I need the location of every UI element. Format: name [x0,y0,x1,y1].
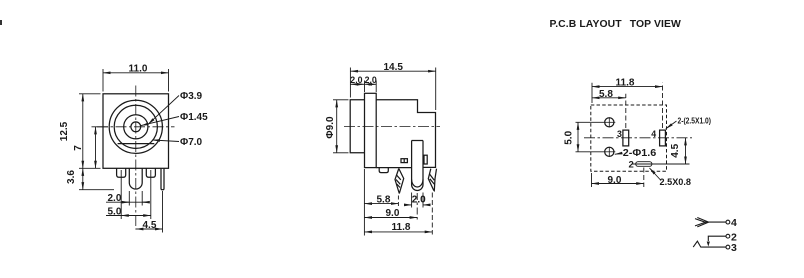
side flat pin [161,168,164,190]
svg-text:2.0: 2.0 [350,75,362,85]
dim 5.0 front [106,170,151,219]
dim 5.8 pcb [592,94,626,128]
side foot [379,168,388,173]
dim 2.0 front [106,191,150,206]
pin 2 branch [707,236,727,246]
svg-text:3: 3 [617,129,622,139]
chord flat [118,143,155,145]
pin 4 terminal [726,220,730,224]
side plate [365,93,377,167]
dim 11.8 side [364,193,432,235]
pcb outline dashed [591,105,667,171]
lug pin left [117,168,126,177]
svg-text:4.5: 4.5 [670,143,681,157]
dim dia 9.0 [333,100,349,153]
dim 5.8 side [364,169,398,236]
svg-text:11.8: 11.8 [616,78,635,89]
slot 4 [660,130,666,146]
hole bottom [603,147,615,157]
dim 14.5 [350,68,435,111]
pin 2 terminal [726,234,730,238]
pin 3 contact [693,241,726,247]
dim 4.5 front [136,191,163,233]
side body [376,100,435,168]
svg-text:4.5: 4.5 [143,220,157,231]
hole top [603,118,615,128]
side barrel [350,100,364,153]
svg-text:P.C.B LAYOUT: P.C.B LAYOUT [550,19,623,30]
svg-text:5.8: 5.8 [377,194,391,205]
svg-text:2.0: 2.0 [412,195,426,206]
dim 12.5 [79,94,101,169]
pin 4 bent [428,169,436,191]
dim 4.5 pcb [633,138,690,164]
svg-text:2.0: 2.0 [108,193,122,204]
svg-text:2-Φ1.6: 2-Φ1.6 [623,148,657,159]
front center lines [97,86,175,230]
svg-text:7: 7 [73,145,84,151]
side slot detail [401,159,407,163]
svg-text:5.8: 5.8 [599,89,613,100]
dim 5.0 pcb [576,122,604,152]
barrel face circle [114,105,157,148]
dim 3.6 [79,168,114,189]
svg-text:4: 4 [651,129,656,139]
svg-text:2: 2 [629,159,634,170]
lug pin right [146,168,155,177]
svg-text:14.5: 14.5 [384,62,404,73]
slot 3 [623,130,629,146]
svg-text:Φ1.45: Φ1.45 [180,112,208,123]
svg-text:3.6: 3.6 [66,170,77,184]
svg-text:Φ3.9: Φ3.9 [180,91,203,102]
svg-text:12.5: 12.5 [59,121,70,141]
svg-text:Φ7.0: Φ7.0 [180,137,203,148]
front view body outline [103,94,169,169]
center pin tube [129,168,142,189]
slot 2 [636,162,652,167]
center pin circle dia 1.45 [131,122,141,132]
dim 11.8 pcb [592,83,663,128]
pcb center line [584,137,692,139]
dim 11.0 [103,69,169,92]
svg-text:2.5X0.8: 2.5X0.8 [660,177,692,188]
svg-text:11.8: 11.8 [392,222,411,233]
dim 2.0 2.0 top [350,81,376,93]
pin 3 bent [395,169,404,194]
circle dia 3.9 [124,115,148,139]
edge speck [0,20,2,25]
svg-text:2.0: 2.0 [365,75,377,85]
leader 2-(2.5X1.0) [666,121,677,129]
svg-text:TOP VIEW: TOP VIEW [630,19,681,30]
svg-text:5.0: 5.0 [108,206,122,217]
dim 2.0 pin [405,193,430,208]
leader dia 3.9 [148,96,179,125]
svg-text:11.0: 11.0 [129,64,148,75]
leader 2-dia1.6 [615,153,623,154]
svg-text:4: 4 [731,217,737,229]
pin 4 contact [695,218,726,227]
dim 9.0 side [364,193,417,221]
leader dia 7.0 [153,140,180,142]
dim 7 [92,127,109,169]
svg-text:2-(2.5X1.0): 2-(2.5X1.0) [678,116,712,126]
svg-text:9.0: 9.0 [386,208,400,219]
title [550,19,682,30]
svg-text:5.0: 5.0 [563,130,574,144]
leader dia 1.45 [141,117,179,126]
side slot right [424,155,427,164]
svg-text:3: 3 [731,242,737,254]
dim 9.0 pcb [592,168,644,188]
svg-text:9.0: 9.0 [608,175,622,186]
pin 2 blade [412,141,423,191]
svg-text:Φ9.0: Φ9.0 [325,116,336,139]
leader 2.5X0.8 [650,168,662,181]
barrel outer circle [109,100,162,153]
side center line [344,126,440,128]
pin 3 terminal [726,245,730,249]
